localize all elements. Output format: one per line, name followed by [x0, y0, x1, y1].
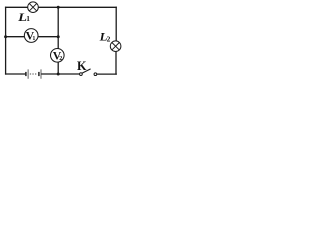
- battery cell2 short thick plate: [38, 72, 40, 76]
- switch contact left: [80, 73, 83, 76]
- lamp L1: [28, 2, 39, 13]
- battery dashed link: [30, 73, 37, 75]
- switch K: [80, 69, 97, 76]
- wire top left segment: [6, 6, 28, 8]
- wire right rail lower: [115, 51, 117, 74]
- wire middle vertical lower: [57, 62, 59, 74]
- switch blade: [82, 69, 91, 73]
- wire right rail upper: [115, 7, 117, 41]
- lamp L2: [110, 41, 121, 52]
- wire bottom left segment: [6, 73, 26, 75]
- svg-text:K: K: [77, 59, 87, 73]
- voltmeter V1: [24, 29, 38, 43]
- voltmeter V2: [51, 49, 65, 63]
- wire V1 branch left: [6, 36, 25, 38]
- junction node middle: [57, 35, 60, 38]
- wire bottom middle segment: [42, 73, 80, 75]
- battery cell1 long thin plate: [27, 69, 29, 78]
- svg-text:2: 2: [107, 34, 111, 43]
- wire middle vertical upper: [57, 7, 59, 48]
- battery cell1 short thick plate: [25, 72, 27, 76]
- wire top right segment: [38, 6, 116, 8]
- junction node left: [4, 35, 7, 38]
- battery cell2 long thin plate: [40, 69, 42, 78]
- junction node top: [57, 6, 60, 9]
- svg-text:1: 1: [26, 14, 30, 23]
- battery B1: [26, 69, 41, 78]
- switch contact right: [94, 73, 97, 76]
- svg-text:2: 2: [59, 56, 62, 62]
- junction node bottom: [57, 73, 60, 76]
- svg-text:1: 1: [32, 36, 35, 42]
- wire V1 branch right: [38, 36, 58, 38]
- wire left rail: [5, 7, 7, 74]
- wire bottom right segment: [97, 73, 117, 75]
